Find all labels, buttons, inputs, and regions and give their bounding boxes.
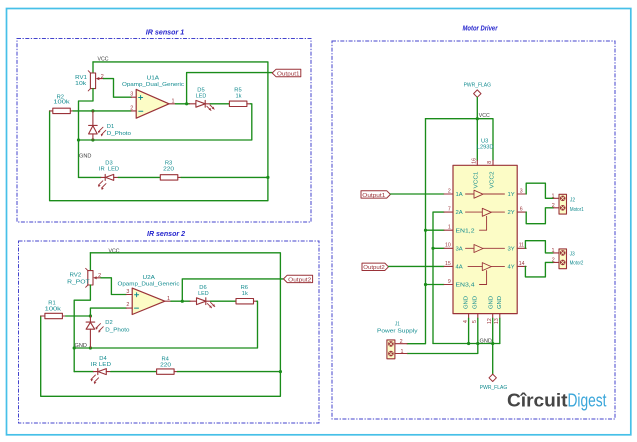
svg-text:3: 3 [126, 289, 129, 295]
svg-text:Output2: Output2 [363, 265, 385, 271]
op-amp U2A [132, 288, 165, 314]
wire output to D6 [171, 300, 190, 302]
svg-text:GND: GND [472, 296, 478, 309]
junction node rail pin5 [476, 342, 479, 345]
wire VCC rail right/bottom/left loop [50, 62, 268, 201]
hierarchical label Output1 [272, 69, 301, 76]
svg-text:R_POT: R_POT [67, 279, 90, 285]
bottom pin stubs [469, 314, 500, 319]
svg-text:1: 1 [552, 248, 555, 254]
svg-text:Output1: Output1 [277, 71, 300, 77]
svg-text:1A: 1A [456, 192, 464, 198]
svg-text:L293D: L293D [477, 145, 494, 151]
svg-text:8: 8 [487, 161, 493, 164]
svg-text:GND: GND [75, 343, 87, 349]
svg-text:3Y: 3Y [508, 246, 516, 252]
wire 3Y to J3 pin1 [525, 241, 553, 253]
junction node rail pin4 [467, 342, 470, 345]
svg-text:LED: LED [196, 93, 207, 99]
svg-text:VCC1: VCC1 [474, 171, 480, 188]
hierarchical label Output2 [284, 275, 313, 282]
block dashed border [332, 41, 615, 419]
wire pin13 to ground rail [499, 318, 501, 343]
wire Output2 to 4A [389, 265, 445, 267]
wire pin5 down to J1 pin1 wire [407, 318, 478, 353]
svg-text:D_Photo: D_Photo [105, 327, 129, 333]
svg-text:Output2: Output2 [288, 277, 311, 283]
svg-text:14: 14 [519, 261, 525, 267]
svg-text:J2: J2 [570, 198, 575, 204]
block dashed border [19, 241, 320, 423]
svg-text:RV2: RV2 [70, 272, 82, 278]
wire GND row to D3 [79, 176, 101, 178]
svg-text:Opamp_Dual_Generic: Opamp_Dual_Generic [122, 82, 184, 88]
svg-text:2: 2 [552, 203, 555, 209]
svg-text:11: 11 [519, 243, 524, 249]
junction node left vertical on D1 row [77, 138, 80, 141]
svg-text:3A: 3A [456, 246, 464, 252]
svg-text:IR LED: IR LED [99, 167, 119, 173]
IC U3 L293D body [453, 165, 517, 313]
resistor R5 [229, 101, 250, 106]
svg-text:9: 9 [448, 279, 451, 285]
svg-text:1k: 1k [242, 291, 248, 297]
junction node 3A [431, 247, 434, 250]
svg-text:1: 1 [448, 225, 451, 231]
wire R3 to right rail [181, 176, 268, 178]
power flag top symbol [474, 90, 481, 97]
svg-text:U1A: U1A [147, 75, 160, 81]
wire output up to Output1 label [187, 73, 273, 104]
left pin stubs [444, 194, 453, 285]
pin 3 stub [131, 96, 136, 98]
svg-text:1: 1 [172, 99, 175, 105]
svg-text:1k: 1k [236, 93, 242, 99]
svg-text:4Y: 4Y [508, 265, 516, 271]
op-amp U1A [136, 89, 169, 118]
svg-text:4A: 4A [456, 265, 464, 271]
pin 1 output stub [169, 103, 176, 105]
wire EN1,2 [426, 229, 445, 231]
wire D3 to R3 [118, 176, 160, 178]
svg-text:VCC: VCC [109, 248, 120, 254]
wire VCC to RV1 top [92, 62, 94, 73]
svg-text:2: 2 [130, 105, 133, 111]
svg-text:Motor Driver: Motor Driver [463, 26, 499, 33]
svg-text:10: 10 [445, 243, 451, 249]
LED D6 [190, 298, 215, 308]
wire R4 to right rail [177, 371, 280, 373]
svg-text:Output1: Output1 [362, 193, 385, 199]
buffer gate 4 [468, 265, 505, 267]
IR LED D4 [91, 369, 111, 385]
wire pin12 down to power flag [492, 318, 494, 374]
svg-text:EN3,4: EN3,4 [456, 283, 475, 289]
wire RV1 wiper to op-amp pin3 [104, 79, 132, 98]
wire output to D5 [176, 103, 190, 105]
junction node D1 top [91, 109, 94, 112]
op-amp plus minus marks [139, 96, 143, 112]
buffer gate 2 [466, 211, 505, 213]
svg-text:16: 16 [471, 158, 477, 164]
wire D2 node up to op-amp pin2 [90, 308, 126, 316]
svg-text:GND: GND [489, 296, 495, 309]
svg-text:Motor2: Motor2 [570, 261, 584, 267]
junction node left vertical GND row [73, 346, 76, 349]
wire output up to Output2 label [182, 279, 283, 301]
svg-text:PWR_FLAG: PWR_FLAG [464, 83, 491, 89]
pin 1 output stub [165, 300, 171, 302]
op-amp plus minus marks [135, 293, 139, 308]
svg-text:7: 7 [448, 207, 451, 213]
right pin stubs [517, 194, 526, 266]
pin 8 stub [492, 160, 494, 165]
wire 3A [433, 247, 444, 249]
svg-text:220: 220 [163, 167, 174, 173]
svg-text:2A: 2A [456, 210, 464, 216]
wire GND row corner to D4 [74, 371, 93, 373]
svg-text:EN1,2: EN1,2 [456, 228, 475, 234]
svg-text:GND: GND [497, 296, 503, 309]
wire pin4 to ground rail [468, 318, 470, 343]
svg-text:2: 2 [552, 258, 555, 264]
svg-text:Motor1: Motor1 [570, 207, 584, 213]
pin 16 stub [476, 160, 478, 165]
block dashed border [17, 39, 311, 223]
buffer gate 1 [466, 193, 505, 195]
wire R1 to D2 node [66, 315, 91, 317]
svg-text:U3: U3 [481, 138, 488, 144]
resistor R3 [160, 175, 181, 180]
svg-text:2: 2 [126, 302, 129, 308]
resistor R6 [236, 299, 257, 304]
wire VCC to RV2 top [89, 253, 91, 271]
svg-text:1: 1 [167, 296, 170, 302]
junction node right rail D4 row [279, 370, 282, 373]
svg-text:IR sensor 1: IR sensor 1 [146, 30, 185, 37]
svg-text:GND: GND [463, 296, 469, 309]
svg-text:D1: D1 [107, 124, 114, 130]
wire D6 to R6 [211, 300, 237, 302]
pin 3 stub [126, 294, 132, 296]
svg-text:GND: GND [79, 153, 91, 159]
svg-text:VCC2: VCC2 [489, 171, 495, 188]
svg-text:D_Photo: D_Photo [107, 131, 131, 137]
junction node VCC [476, 117, 479, 120]
wire D5 to R5 [210, 103, 229, 105]
svg-text:J1: J1 [395, 322, 400, 328]
power flag bottom symbol [489, 374, 496, 381]
svg-text:IR LED: IR LED [91, 362, 111, 368]
pin 2 stub [126, 307, 132, 309]
junction node rail pin12 [491, 342, 494, 345]
buffer gate 3 [466, 247, 505, 249]
wire D4 to R4 [111, 371, 157, 373]
wire 2A vertical ground branch [433, 212, 444, 343]
wire 1Y to J2 pin1 [526, 183, 553, 198]
svg-text:R3: R3 [165, 160, 172, 166]
junction node output [185, 102, 188, 105]
svg-text:3: 3 [130, 92, 133, 98]
svg-text:100k: 100k [53, 100, 70, 106]
junction node EN3,4 [424, 283, 427, 286]
junction node output [181, 300, 184, 303]
svg-text:10k: 10k [75, 81, 86, 87]
wire 2Y to J2 pin2 [526, 208, 553, 224]
svg-text:2: 2 [448, 188, 451, 194]
wire RV2 wiper to op-amp pin3 [101, 278, 126, 295]
IR LED D3 [98, 174, 118, 190]
resistor R1 [41, 313, 66, 318]
pin 2 stub [131, 110, 136, 112]
junction node EN1,2 [424, 229, 427, 232]
svg-text:1Y: 1Y [508, 192, 516, 198]
junction node D1 bottom [91, 138, 94, 141]
wire Output1 to 1A [390, 193, 444, 195]
wire 4Y to J3 pin2 [525, 262, 553, 277]
svg-text:IR sensor 2: IR sensor 2 [147, 231, 185, 238]
wire power flag stem to VCC rail [476, 97, 478, 118]
photodiode D2 [86, 316, 103, 348]
resistor R2 [50, 108, 73, 113]
svg-text:LED: LED [198, 291, 209, 297]
LED D5 [189, 100, 214, 110]
svg-text:GND: GND [480, 339, 492, 345]
svg-text:15: 15 [445, 261, 451, 267]
EN3,4 internal wire [480, 271, 487, 285]
hierarchical label Output2 [362, 263, 389, 270]
svg-text:2Y: 2Y [508, 210, 516, 216]
photodiode D1 [89, 111, 106, 140]
wire R2 to op-amp pin2 [73, 110, 131, 112]
connector J3 [554, 249, 567, 269]
wire RV2 bottom step to left vertical [74, 285, 90, 372]
wire R6 down and left along GND row [74, 301, 257, 348]
svg-text:6: 6 [520, 207, 523, 213]
svg-text:U2A: U2A [143, 275, 156, 281]
svg-text:1: 1 [552, 193, 555, 199]
svg-text:J3: J3 [570, 252, 575, 258]
svg-text:Digest: Digest [568, 390, 607, 411]
wire VCC rail right/bottom/left loop [41, 253, 281, 396]
ground rail [433, 343, 500, 345]
svg-text:D2: D2 [105, 320, 112, 326]
junction node right rail D3 row [266, 176, 269, 179]
svg-text:3: 3 [520, 188, 523, 194]
connector J2 [554, 194, 567, 214]
wire RV1 bottom step to left vertical [79, 89, 94, 178]
svg-text:2: 2 [400, 339, 403, 345]
wire VCC rail to U3 pins 16 and 8 [426, 119, 494, 161]
svg-text:PWR_FLAG: PWR_FLAG [480, 385, 507, 391]
wire EN3,4 [426, 284, 445, 286]
svg-text:Opamp_Dual_Generic: Opamp_Dual_Generic [118, 281, 180, 287]
svg-text:1: 1 [401, 349, 404, 355]
potentiometer RV2 [86, 268, 101, 287]
wire VCC left vertical to J1 pin2 [407, 119, 425, 344]
svg-text:Cîrcuit: Cîrcuit [507, 390, 568, 411]
svg-text:100k: 100k [45, 307, 62, 313]
potentiometer RV1 [88, 71, 103, 91]
svg-text:220: 220 [160, 362, 171, 368]
EN1,2 internal wire [480, 216, 487, 230]
resistor R4 [157, 369, 178, 374]
wire R5 down and left to D1 row [79, 104, 252, 140]
junction node D2 bottom [89, 346, 92, 349]
svg-text:D3: D3 [105, 160, 112, 166]
svg-text:Power Supply: Power Supply [377, 329, 418, 335]
connector J1 [387, 340, 407, 359]
hierarchical label Output1 [361, 191, 390, 198]
junction node D2 top [89, 314, 92, 317]
